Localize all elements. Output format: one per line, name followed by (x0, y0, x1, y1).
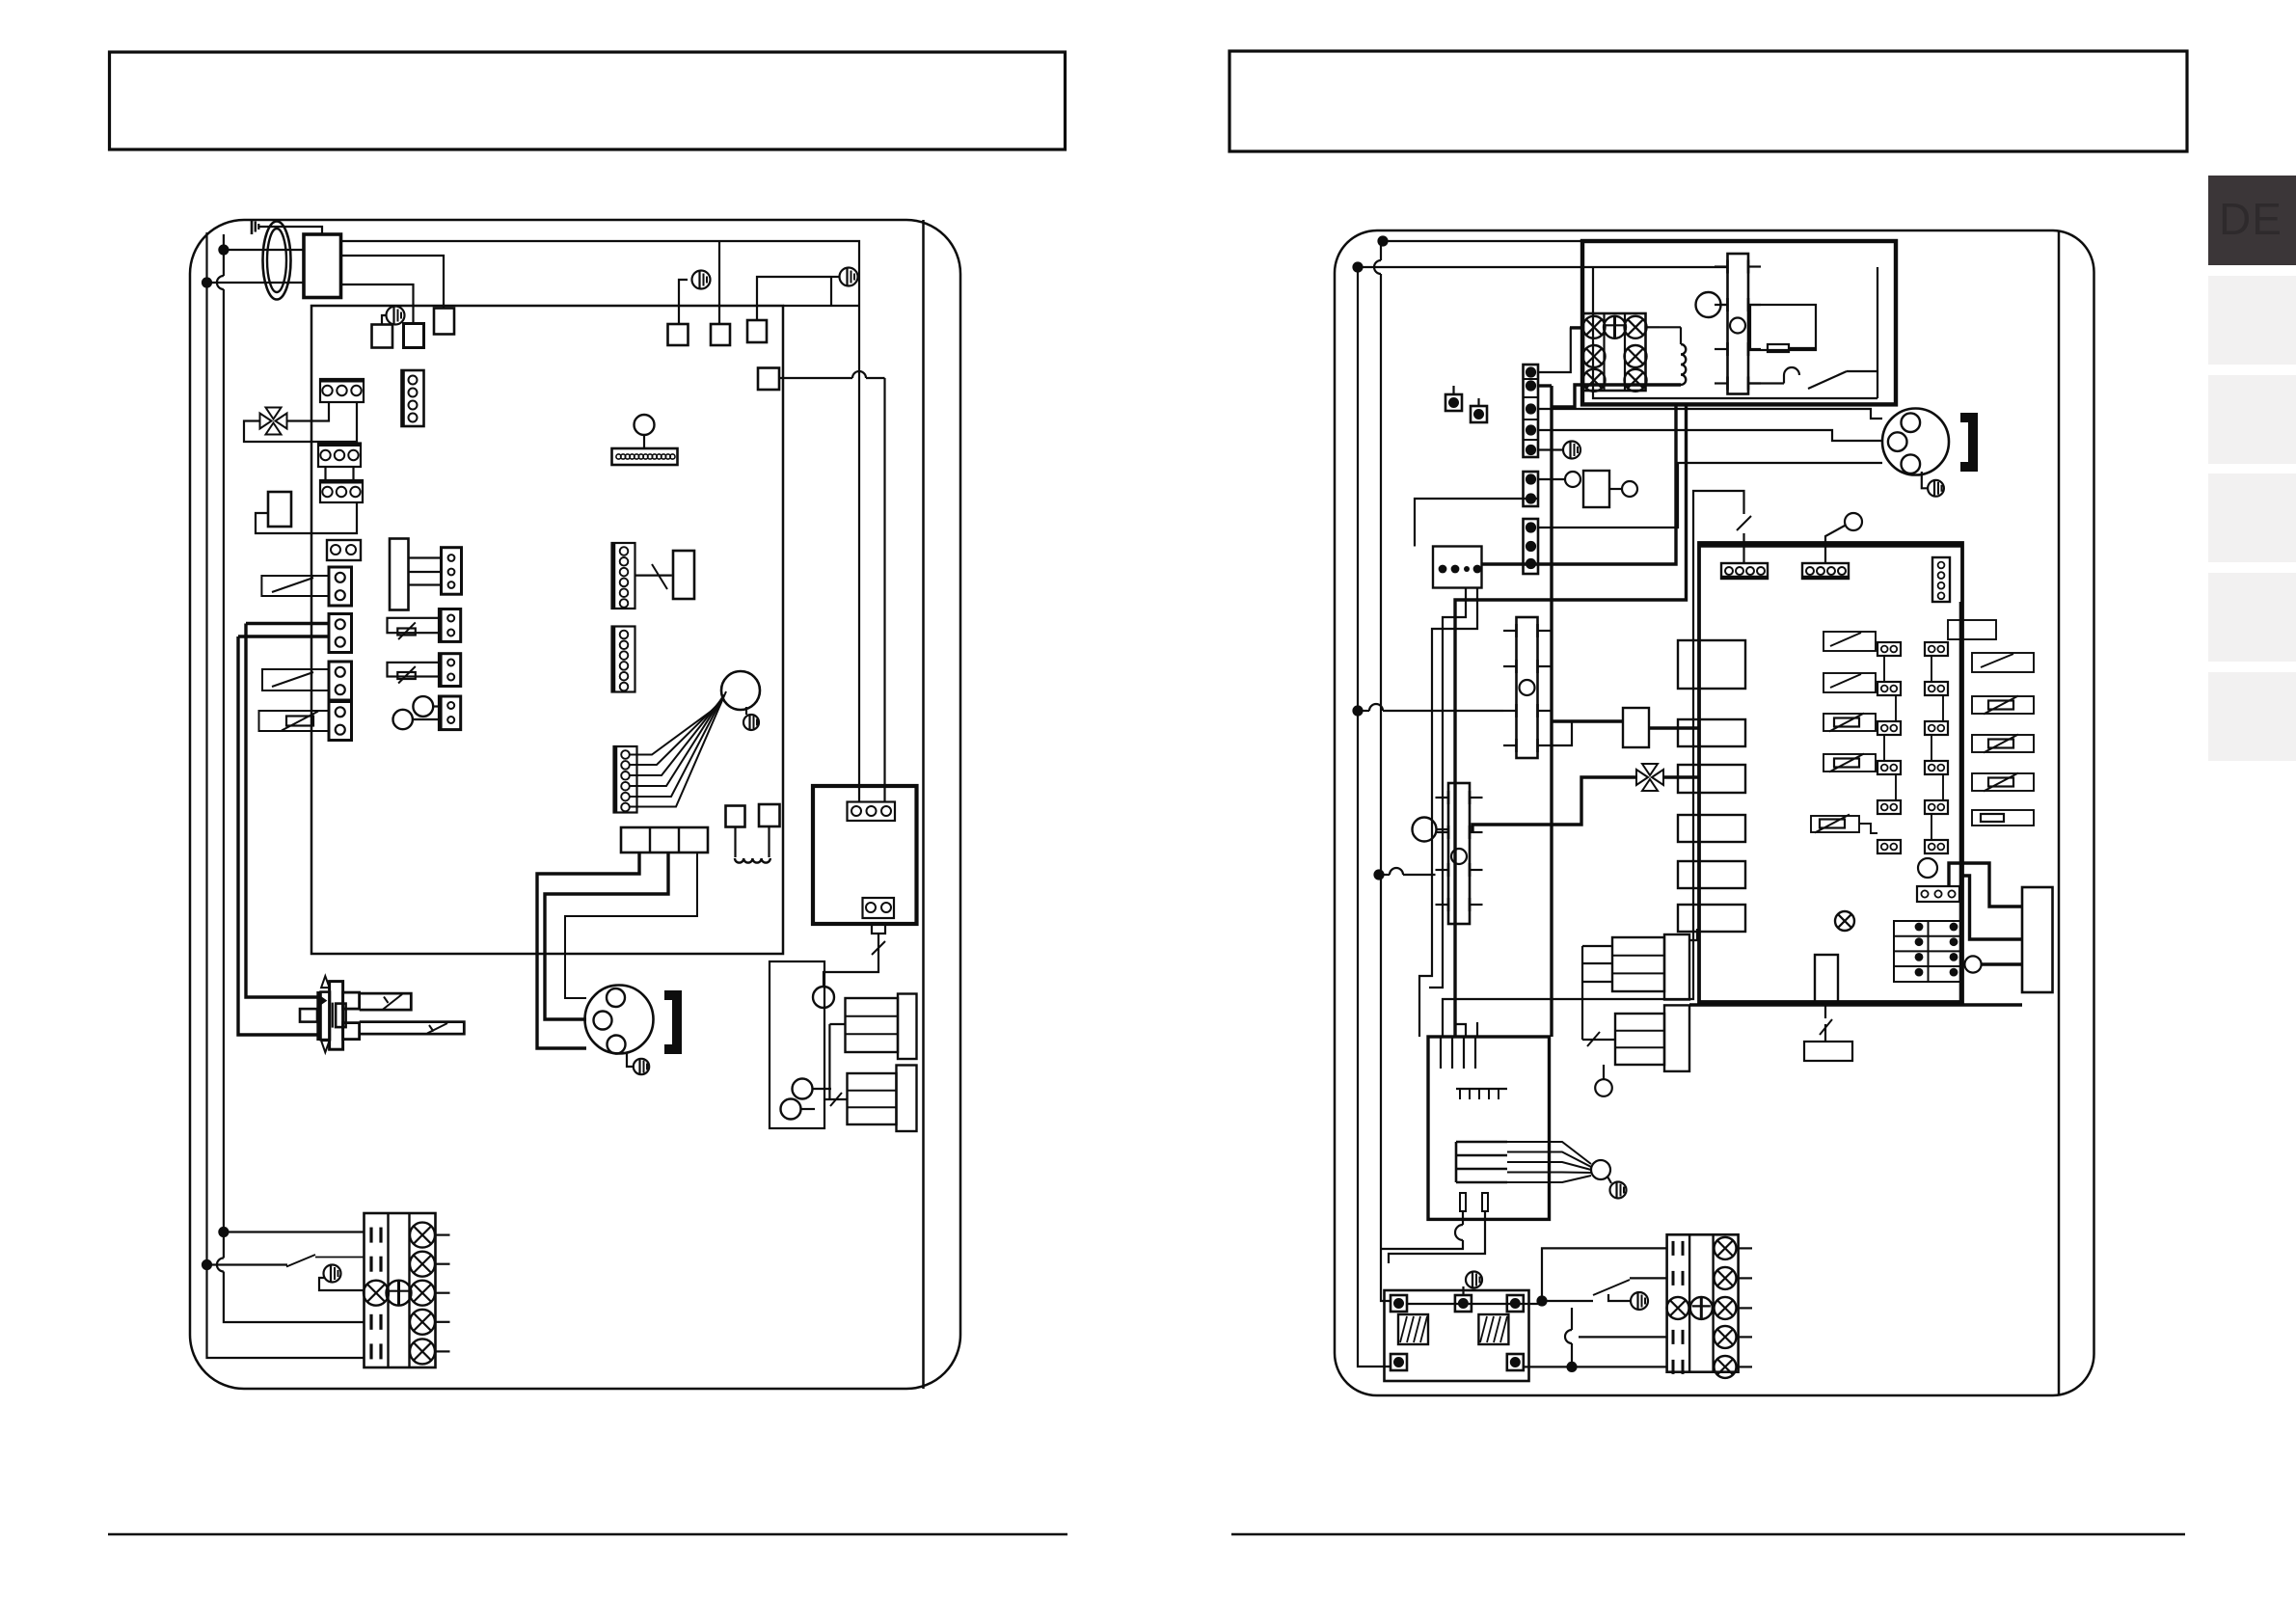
pump motor stack 1 (846, 994, 917, 1060)
mixing valve symbol V1 (260, 408, 287, 435)
wire sq A to coil (734, 827, 736, 858)
pressure switch PS1 pins (1715, 260, 1761, 391)
wire pin2 to vertical bus (1538, 386, 1552, 1037)
connector X4 2-pin (329, 662, 352, 700)
connector 4-pin vertical on PCB (1932, 557, 1950, 602)
ground symbol G3 (840, 268, 858, 286)
relay 3-pin connector (848, 802, 896, 822)
wire R bus2 horizontal (1358, 266, 1728, 268)
control connector strip P3 (3-pin) (1524, 519, 1539, 574)
PCB center bus (1959, 602, 1962, 1002)
flame module R1 (1583, 471, 1609, 507)
wire pin3 staircase to gas valve (1538, 409, 1882, 419)
main relay box K2 (1582, 241, 1896, 404)
ground symbol G4 at X10 (319, 1265, 365, 1291)
wire valve V2 right (1663, 775, 1699, 778)
relay K box (268, 492, 291, 527)
circle below stacks (1595, 1065, 1612, 1096)
footer rule left page (108, 1533, 1067, 1536)
circle device C2 (1609, 481, 1637, 497)
circle inner outline 2 (781, 1099, 801, 1120)
display unit rect (2022, 887, 2053, 992)
varistor comp l-r6 (1811, 815, 1877, 834)
wire 4dot box link (1415, 499, 1538, 547)
connector 2-hole block (327, 540, 361, 560)
node R junction dot 1 (1377, 235, 1388, 246)
boiler control outline box (770, 961, 824, 1128)
circle at control fan (1591, 1160, 1610, 1179)
connector square S4 (668, 324, 689, 345)
wire control outputs down (1381, 1211, 1485, 1263)
wire stair c with contact (1443, 491, 1751, 1037)
mains isolation transformer T1 (toroid) (263, 222, 291, 300)
R pump stack B (1615, 1005, 1689, 1071)
ground G-r at X30 (1608, 1292, 1648, 1310)
control connector strip P2 (2-pin) (1524, 472, 1539, 506)
component squares with dots (1445, 386, 1487, 422)
wire G2 to square S1 (382, 315, 387, 325)
connector X5 2-pin (329, 702, 352, 741)
wire pin1 to X-block (1538, 329, 1583, 373)
wire thick to X3 pin1 (246, 622, 329, 625)
loop comp r-r1 (1948, 620, 1996, 639)
wire DIP to display (1962, 876, 2022, 939)
electrode circles pair (393, 696, 440, 729)
R pump stack A (1612, 934, 1689, 1000)
wire 3pin to display (1949, 863, 2022, 907)
junction terminal block X20 (1570, 313, 1660, 392)
header box left page (110, 52, 1066, 149)
PCB oo block left r4 (1877, 761, 1901, 774)
wire valve V1 to B1 pin1 (287, 402, 330, 421)
ignition control unit box (1428, 1037, 1550, 1219)
wire stack B cap to display (1689, 1003, 2022, 1006)
water pressure sensor TS2 (1436, 783, 1483, 924)
connector block B3 3-pin (320, 480, 363, 502)
trim pot circle (635, 415, 655, 448)
wire S7 to relay (hop) (779, 371, 885, 801)
wire valve V1 loop to B1 pin3 (244, 402, 357, 442)
interface header tall rect (390, 539, 409, 610)
circle on outline box (813, 987, 834, 1008)
node L junction dot top 1 (218, 244, 229, 255)
PCB left stub 4 (1678, 815, 1745, 842)
connector square S7 (758, 368, 779, 391)
node L junction dot top 2 (202, 277, 212, 287)
wire R bus line 2 (1358, 267, 1391, 1367)
PCB oo block left r1 (1877, 642, 1901, 656)
PCB oo block right r4 (1925, 761, 1948, 774)
wire neutral into T1 (207, 282, 305, 284)
wire X10 row1 from junction (224, 1231, 365, 1232)
left boundary frame (190, 220, 960, 1389)
wire slash below (1820, 1003, 1832, 1042)
PCB oo block right r5 (1925, 800, 1948, 814)
varistor comp l-r3 (1823, 714, 1876, 732)
PCB oo block left r5 (1877, 800, 1901, 814)
footer rule right page (1231, 1533, 2185, 1536)
ground above filter (1464, 1272, 1483, 1296)
ignition electrode assembly (300, 976, 464, 1052)
mains terminal block X30 (1667, 1234, 1753, 1378)
side tab 5 (2208, 672, 2296, 761)
connector for electrodes (439, 696, 460, 730)
connector X3 2-pin (329, 614, 352, 653)
wire circle to display (1982, 962, 2022, 965)
wire R-mid right (1649, 726, 1699, 729)
PCB left stub 2 (1678, 719, 1745, 746)
PCB oo block right r2 (1925, 682, 1948, 695)
connector square S1 (372, 325, 393, 348)
wire c2 stem to circle K3 (1825, 526, 1845, 563)
node dot on bus at TS2 (1373, 868, 1435, 880)
wire fan CN3 to gas valve plug (630, 691, 726, 807)
filter hatched block 2 (1478, 1314, 1508, 1344)
wire dotB up hook (1565, 1308, 1572, 1367)
circle inner outline 1 (793, 1079, 813, 1099)
side tab 2 (2208, 375, 2296, 464)
svg-text:DE: DE (2219, 194, 2282, 244)
connector for T-b (439, 654, 460, 687)
connector 3-pin PCB bottom (1917, 886, 1959, 902)
wire column links left (1884, 656, 1896, 800)
gas valve connector circle (585, 986, 654, 1054)
gas valve connector circle R (1882, 409, 1949, 475)
DE language tab (2208, 176, 2296, 265)
header box right page (1229, 51, 2187, 151)
PCB left stub 6 (1678, 905, 1745, 932)
relay coil module SR (1750, 305, 1816, 352)
mains filter box (1385, 1290, 1529, 1381)
node R junction dot 2 (1352, 261, 1363, 272)
wire feed down to igniter 2 (238, 636, 317, 1035)
wire L bus line 2 (207, 232, 365, 1358)
wire stack A top right (1689, 929, 1697, 940)
wire header to 3-pin b (409, 571, 442, 573)
wire stack A left bus (1582, 946, 1612, 1040)
sensor module T-a (388, 618, 440, 639)
varistor comp r-r5 (1972, 773, 2034, 792)
side tab 3 (2208, 474, 2296, 562)
connector oooo c2 (1802, 563, 1849, 579)
spark generator square B (759, 804, 780, 826)
power supply unit box U1 (304, 234, 341, 298)
connector square S3 (434, 309, 454, 335)
switch to display unit (635, 564, 672, 589)
terminal row 3 cells (621, 827, 708, 853)
wire circles link (800, 1089, 831, 1109)
mixing valve symbol V2 (1636, 764, 1663, 791)
ground symbol at pin5 (1538, 442, 1580, 459)
spark generator square A (726, 806, 745, 827)
wire U1 to square S2 (341, 284, 414, 324)
circle device C1 (1538, 472, 1580, 487)
wire feed down to igniter 1 (246, 624, 317, 998)
wire fan control to circle (1507, 1142, 1591, 1182)
wire U1 to square S3 (341, 256, 445, 309)
ground symbol below gas valve (627, 1053, 649, 1074)
wire long bus to relay top (783, 305, 859, 307)
node dot on bus at TS1 (1352, 704, 1503, 717)
wire B2 to B3 links (326, 467, 354, 480)
wire S5 stem to bus (718, 241, 720, 324)
switch comp l-r1 (1823, 632, 1876, 651)
pump feed rect below PCB (1815, 955, 1838, 1003)
circle right of DIP (1964, 956, 1981, 972)
circle P1 on PCB (1918, 858, 1937, 878)
filter hatched block 1 (1398, 1314, 1428, 1344)
right frame inner margin line (2058, 230, 2061, 1395)
wire TL to dotA (1408, 1303, 1542, 1305)
wire header to 3-pin c (409, 583, 442, 585)
ignition coil (735, 858, 770, 863)
wire stair b (1455, 404, 1687, 1037)
wire pin4 staircase to gas valve (1538, 430, 1882, 441)
wire to stack 2 with switch (824, 1024, 847, 1106)
wire S6 to ground G3 (757, 277, 831, 320)
connector 3-pin right of header (442, 548, 462, 595)
wire S4 stem to ground (679, 280, 688, 324)
main control PCB outline (311, 306, 783, 954)
wire stair a (1482, 404, 1676, 564)
wire column links right (1931, 656, 1943, 840)
flow switch assembly TS1 (1503, 617, 1551, 758)
lamp symbol on PCB (1835, 911, 1854, 931)
wire gas valve feed 2 (545, 853, 668, 1019)
small box below PCB (1804, 1042, 1852, 1061)
choke coil L1 (1552, 327, 1686, 407)
wire stair e into comb (1455, 1003, 1477, 1037)
varistor comp r-r3 (1972, 696, 2034, 715)
PCB left stub 3 (1678, 765, 1745, 793)
gas valve bracket (664, 995, 677, 1049)
circle left of TS2 (1413, 818, 1449, 842)
wire U1 to relay bus right (341, 241, 860, 801)
connector strip CN1 6-pin (612, 543, 635, 609)
wire to stack B with switch (1582, 1032, 1615, 1046)
PCB oo block right r1 (1925, 642, 1948, 656)
wire sq B to coil (768, 826, 770, 857)
connector block B2 3-pin (318, 444, 361, 468)
varistor comp l-r4 (1823, 754, 1876, 772)
connector strip CN3 6-pin (614, 746, 637, 813)
connector square S6 (747, 320, 767, 342)
PCB left stub 1 (1678, 640, 1745, 689)
connector X2 2-pin (329, 567, 352, 606)
wire L bus line 1 (217, 234, 365, 1322)
wire valve V2 left staircase (1472, 777, 1636, 832)
DIP strip 13-pin (612, 448, 678, 465)
resistor comp r-r6 (1972, 810, 2034, 826)
wire relay to boiler unit with switch (824, 934, 885, 987)
pressure switch S11 rect (262, 669, 329, 690)
wire X10 row2 with switch (207, 1255, 365, 1267)
mains terminal block X10 (364, 1213, 450, 1367)
control connector strip P1 (5-pin) (1524, 365, 1539, 457)
side tab 4 (2208, 573, 2296, 662)
ground at control fan (1607, 1177, 1627, 1199)
wire gas valve feed 3 (565, 853, 697, 998)
wire R bus1 horizontal (1383, 240, 1582, 242)
wire gas valve feed 1 (537, 853, 639, 1048)
gas valve plug circle small (721, 671, 760, 710)
PCB oo block right r3 (1925, 721, 1948, 735)
sensor module T-b (388, 663, 440, 684)
ground below gas valve R (1922, 472, 1944, 497)
PCB oo block left r3 (1877, 721, 1901, 735)
relay 2-pin bottom connector (863, 898, 895, 918)
relay output stub (872, 924, 885, 934)
wire pin P3a to gas valve port3 (1538, 463, 1882, 528)
display unit small rect (673, 551, 694, 599)
node L junction dot bottom 1 (218, 1227, 229, 1237)
node dot B (1566, 1362, 1577, 1372)
wire G3 stub (831, 277, 840, 306)
wire ground to PSU box (258, 227, 322, 234)
ground symbol G1 top-left (earth bars) (252, 219, 258, 234)
relay unit box (right) (813, 786, 917, 924)
pump motor stack 2 (848, 1066, 917, 1132)
wire stair d nested (1419, 588, 1477, 1038)
connector square S5 (711, 324, 730, 345)
ground symbol G2 (387, 307, 405, 325)
flow switch S10 rect (261, 576, 329, 596)
wire TS1 pin4 staircase (1551, 721, 1623, 745)
wire thick to X3 pin2 (238, 635, 329, 637)
connector J1 4-pin vertical (402, 370, 424, 426)
connector oooo c1 (1721, 563, 1768, 579)
wire X30 row4 left (1579, 1336, 1667, 1338)
circle K3 (1845, 513, 1862, 530)
PCB oo block left r2 (1877, 682, 1901, 695)
switch comp l-r2 (1823, 673, 1876, 692)
right boundary frame (1335, 230, 2094, 1395)
wire dotA up to X30 row1 (1542, 1248, 1667, 1301)
connector square S2 (404, 324, 424, 348)
left frame inner margin line (922, 220, 925, 1389)
wire relay K loop to B3 (256, 502, 357, 533)
wire R-mid left (1552, 719, 1623, 722)
PCB left stub 5 (1678, 861, 1745, 888)
connector strip CN2 6-pin (612, 627, 635, 692)
connector block B1 3-pin (320, 379, 364, 402)
wire R bus line 1 (with hop) (1374, 241, 1391, 1301)
wire BR to dotB (1524, 1366, 1667, 1367)
wire phase into T1 (224, 249, 304, 251)
gas valve bracket R (1960, 418, 1973, 467)
ground symbol at gas plug (743, 707, 759, 730)
module R-mid (1623, 708, 1649, 747)
NTC sensor R10 (259, 711, 329, 731)
node L junction dot bottom 2 (202, 1259, 212, 1270)
PCB oo block right r6 (1925, 840, 1948, 853)
circle K1 in relay (1696, 292, 1728, 317)
connector strip 4-dot (1433, 547, 1482, 588)
node dot A (1536, 1295, 1547, 1306)
pressure switch PS1 body (1728, 254, 1749, 394)
DIP block 4x2 (1894, 921, 1962, 982)
PCB board outline R (1699, 543, 1962, 1002)
connector for T-a (439, 609, 460, 642)
switch comp r-r2 (1972, 653, 2034, 672)
relay inner frame (1593, 267, 1877, 398)
side tab 1 (2208, 276, 2296, 365)
varistor comp r-r4 (1972, 735, 2034, 753)
wire switch row2 (1542, 1278, 1667, 1301)
ground symbol G2b (692, 271, 711, 289)
wire header to 3-pin a (409, 556, 442, 558)
relay switch contact (1748, 367, 1877, 389)
PCB oo block left r6 (1877, 840, 1901, 853)
